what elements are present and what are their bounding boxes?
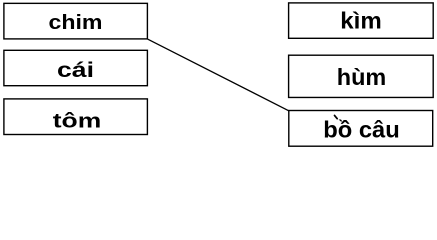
svg-text:hùm: hùm <box>337 64 387 90</box>
box R1 "kìm" <box>289 3 434 38</box>
svg-text:kìm: kìm <box>340 8 382 34</box>
svg-text:bồ câu: bồ câu <box>323 117 400 143</box>
box L1 "chim" <box>4 3 148 39</box>
wire connector line chim to bồ câu <box>148 39 289 111</box>
svg-text:tôm: tôm <box>53 110 102 132</box>
box L3 "tôm" <box>4 99 148 135</box>
svg-text:cái: cái <box>57 59 94 82</box>
box L2 "cái" <box>4 50 148 85</box>
box R3 "bồ câu" <box>289 111 433 147</box>
svg-text:chim: chim <box>49 12 103 34</box>
box R2 "hùm" <box>289 55 434 97</box>
grave accent mark above ồ <box>335 115 338 118</box>
